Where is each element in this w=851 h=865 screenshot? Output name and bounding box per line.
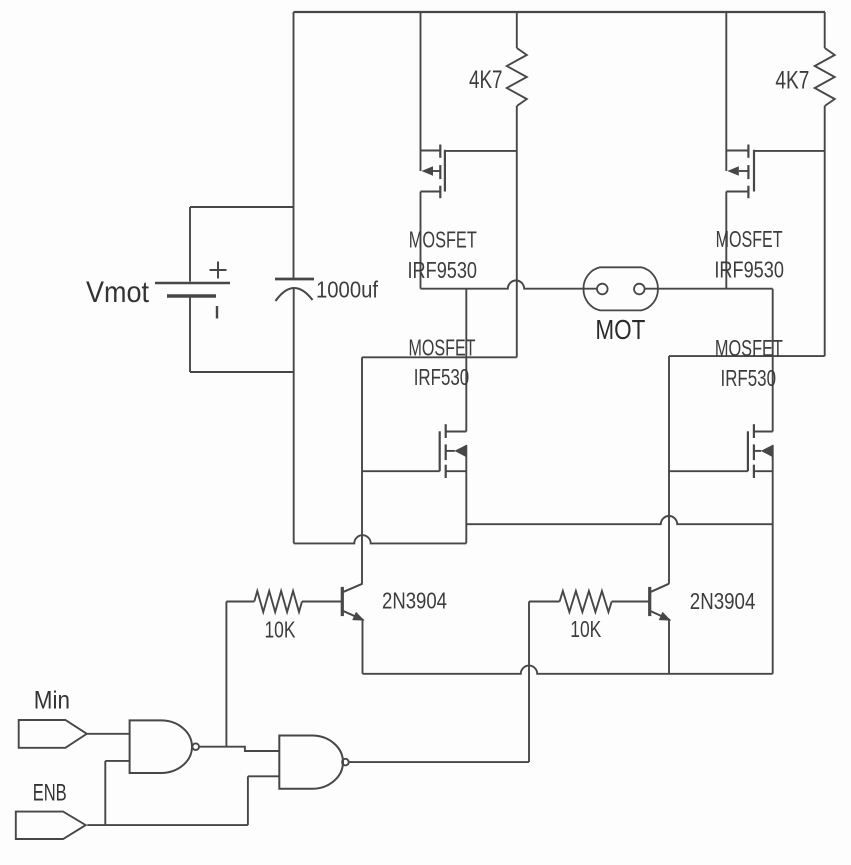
svg-text:ENB: ENB	[33, 780, 67, 807]
svg-text:IRF530: IRF530	[721, 365, 777, 391]
svg-text:IRF9530: IRF9530	[408, 257, 478, 283]
svg-text:2N3904: 2N3904	[382, 588, 447, 614]
svg-text:4K7: 4K7	[775, 67, 809, 95]
svg-text:4K7: 4K7	[469, 66, 503, 94]
svg-text:Min: Min	[34, 687, 70, 715]
svg-text:IRF530: IRF530	[414, 364, 470, 390]
svg-text:IRF9530: IRF9530	[714, 257, 784, 283]
svg-text:2N3904: 2N3904	[690, 588, 756, 614]
svg-text:MOT: MOT	[595, 314, 645, 345]
svg-text:MOSFET: MOSFET	[409, 227, 477, 253]
svg-text:10K: 10K	[570, 616, 601, 642]
svg-text:10K: 10K	[265, 617, 296, 643]
svg-text:MOSFET: MOSFET	[409, 335, 476, 361]
svg-text:MOSFET: MOSFET	[716, 226, 783, 252]
svg-text:1000uf: 1000uf	[316, 277, 378, 303]
svg-text:MOSFET: MOSFET	[715, 335, 783, 361]
svg-text:Vmot: Vmot	[86, 276, 150, 309]
